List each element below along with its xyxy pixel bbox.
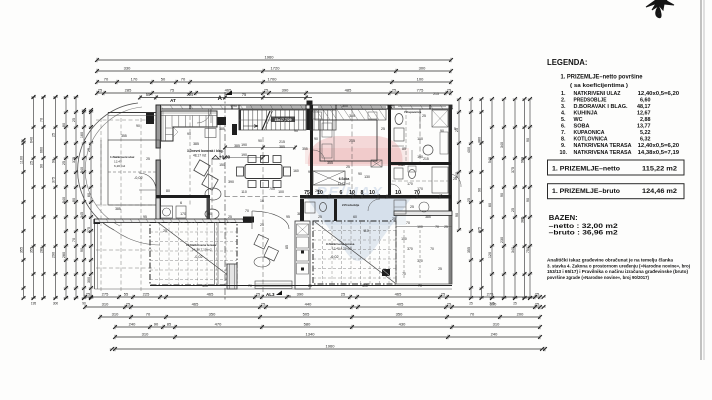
right dimension chains — [458, 99, 460, 230]
svg-text:370: 370 — [407, 247, 413, 251]
svg-text:310: 310 — [112, 312, 119, 317]
svg-text:1720: 1720 — [271, 66, 281, 71]
svg-text:NATKRIVENA TERASA: NATKRIVENA TERASA — [574, 143, 632, 149]
svg-text:9.: 9. — [561, 143, 566, 149]
svg-text:1700: 1700 — [268, 77, 278, 82]
svg-text:60: 60 — [353, 215, 357, 219]
north compass star — [646, 0, 674, 18]
svg-text:190: 190 — [241, 153, 247, 157]
svg-text:25: 25 — [346, 165, 350, 169]
svg-text:90: 90 — [258, 139, 262, 143]
svg-text:90: 90 — [294, 129, 298, 133]
svg-text:375: 375 — [477, 227, 481, 233]
svg-text:70: 70 — [104, 77, 109, 82]
svg-text:12,40x0,5=6,20: 12,40x0,5=6,20 — [638, 91, 680, 97]
coffee table — [205, 188, 221, 200]
svg-text:124,46 m2: 124,46 m2 — [642, 188, 677, 195]
kitchen counter column — [295, 221, 310, 289]
svg-text:190: 190 — [241, 143, 247, 147]
svg-text:385: 385 — [219, 127, 225, 131]
svg-text:580: 580 — [304, 322, 311, 327]
armchair 1 — [194, 160, 210, 176]
watermark RE/MAX balloon blue bottom — [306, 197, 412, 261]
svg-text:25: 25 — [444, 225, 448, 229]
svg-text:25: 25 — [511, 208, 515, 212]
svg-text:4.: 4. — [561, 110, 566, 116]
svg-text:–bruto : 36,96 m2: –bruto : 36,96 m2 — [549, 230, 619, 237]
svg-text:55: 55 — [146, 92, 151, 97]
svg-text:775: 775 — [417, 88, 424, 93]
svg-text:25: 25 — [447, 88, 452, 93]
bathroom fixtures — [395, 114, 403, 125]
svg-text:310: 310 — [493, 322, 500, 327]
svg-text:90: 90 — [72, 198, 76, 202]
svg-text:-0,02: -0,02 — [330, 255, 339, 259]
svg-text:90: 90 — [526, 138, 530, 142]
bottom dimension chains — [85, 296, 540, 298]
svg-text:90: 90 — [233, 104, 237, 108]
bedroom wardrobe hatch — [315, 110, 386, 121]
svg-text:355: 355 — [29, 247, 33, 253]
svg-text:110: 110 — [241, 190, 247, 194]
svg-text:90: 90 — [526, 198, 530, 202]
armchair 2 — [202, 174, 218, 190]
svg-text:AT: AT — [170, 98, 176, 103]
svg-text:NATKRIVENA TERASA: NATKRIVENA TERASA — [574, 150, 632, 156]
svg-text:120: 120 — [488, 252, 492, 258]
door arcs interior — [391, 184, 401, 194]
svg-text:240: 240 — [491, 332, 498, 337]
svg-text:195: 195 — [31, 302, 37, 306]
washbasin — [161, 206, 173, 218]
terrace 10 outline — [150, 223, 237, 286]
svg-text:6: 6 — [180, 201, 182, 205]
svg-text:95: 95 — [286, 215, 290, 219]
svg-text:6.: 6. — [561, 124, 566, 130]
door arc at top wall — [197, 109, 211, 123]
svg-text:WC: WC — [574, 117, 583, 123]
svg-text:465: 465 — [192, 302, 199, 307]
deck left edge — [94, 222, 96, 289]
svg-text:200: 200 — [315, 189, 321, 193]
svg-text:350: 350 — [396, 312, 403, 317]
svg-text:25: 25 — [51, 133, 55, 137]
svg-text:540: 540 — [62, 197, 66, 203]
bed — [320, 120, 377, 161]
svg-text:površine zgrade (»Narodne nov: površine zgrade (»Narodne novine«, broj … — [547, 275, 650, 280]
svg-text:385: 385 — [115, 207, 121, 211]
svg-text:405: 405 — [202, 284, 208, 288]
svg-text:375: 375 — [72, 157, 76, 163]
pool deck arc lower — [114, 230, 160, 245]
watermark RE/MAX balloon red top — [308, 136, 403, 166]
svg-text:385: 385 — [193, 142, 199, 146]
svg-text:25: 25 — [98, 88, 103, 93]
interior wall living/bedroom — [310, 105, 313, 196]
bottom row end doubles — [542, 295, 546, 299]
svg-text:2.Predsoblje: 2.Predsoblje — [342, 203, 360, 207]
zone edge line — [208, 109, 210, 219]
svg-text:90: 90 — [51, 159, 55, 163]
svg-text:48,17 m2: 48,17 m2 — [193, 154, 207, 158]
pool deck dashed grid — [96, 119, 155, 121]
svg-text:6.Soba: 6.Soba — [339, 177, 350, 181]
pool circle (BAZEN) — [78, 103, 138, 230]
interior vertical dashed — [262, 137, 264, 296]
svg-text:8.: 8. — [561, 137, 566, 143]
svg-text:9.Natkrivena terasa: 9.Natkrivena terasa — [326, 242, 355, 246]
top dimension chains — [97, 59, 451, 61]
svg-text:Analitički iskaz građevine obr: Analitički iskaz građevine obračunat je … — [547, 258, 674, 263]
svg-text:50: 50 — [161, 77, 166, 82]
svg-text:465: 465 — [207, 292, 214, 297]
svg-text:355: 355 — [121, 134, 127, 138]
svg-text:310: 310 — [102, 302, 109, 307]
svg-text:1960: 1960 — [326, 344, 336, 349]
svg-text:5.: 5. — [561, 117, 566, 123]
svg-text:540: 540 — [80, 167, 84, 173]
svg-text:115,22 m2: 115,22 m2 — [642, 166, 677, 173]
svg-text:385: 385 — [297, 212, 303, 216]
svg-text:KUPAONICA: KUPAONICA — [574, 130, 605, 136]
stair label — [271, 117, 295, 123]
svg-text:355: 355 — [467, 247, 471, 253]
wall pier top-left corner — [146, 113, 154, 124]
svg-text:70: 70 — [245, 209, 249, 213]
svg-text:25: 25 — [318, 215, 322, 219]
svg-text:225: 225 — [187, 92, 194, 97]
svg-text:90: 90 — [308, 170, 312, 174]
left dimension chains — [23, 140, 25, 298]
svg-text:70: 70 — [146, 312, 151, 317]
svg-text:400: 400 — [467, 147, 471, 153]
svg-text:6,20 m2: 6,20 m2 — [114, 164, 125, 168]
svg-text:15x17,7/29: 15x17,7/29 — [275, 118, 292, 122]
svg-text:385: 385 — [520, 217, 524, 223]
interior wall bedroom/bath — [388, 105, 391, 196]
svg-text:LEGENDA:: LEGENDA: — [547, 57, 588, 67]
svg-text:160: 160 — [80, 132, 84, 138]
svg-text:110: 110 — [363, 229, 369, 233]
svg-text:1100: 1100 — [19, 156, 23, 164]
svg-text:70: 70 — [470, 312, 475, 317]
svg-text:10: 10 — [395, 190, 401, 196]
svg-text:85: 85 — [167, 322, 172, 327]
staircase flight 1 — [239, 110, 306, 130]
svg-text:355: 355 — [19, 247, 23, 253]
svg-text:350: 350 — [209, 312, 216, 317]
deck outline — [396, 216, 452, 285]
svg-text:16: 16 — [260, 199, 264, 203]
svg-text:75: 75 — [170, 88, 175, 93]
legend bruto box — [548, 184, 685, 199]
windows in top wall — [246, 105, 306, 107]
svg-text:13,77 m2: 13,77 m2 — [338, 182, 351, 186]
svg-text:90: 90 — [314, 137, 318, 141]
svg-text:1. PRIZEMLJE–netto: 1. PRIZEMLJE–netto — [552, 166, 620, 173]
svg-text:340: 340 — [511, 247, 515, 253]
svg-text:380: 380 — [477, 137, 481, 143]
svg-text:90: 90 — [455, 213, 459, 217]
svg-text:KOTLOVNICA: KOTLOVNICA — [574, 137, 608, 143]
terrace 9 post — [382, 269, 390, 276]
svg-text:70: 70 — [430, 247, 434, 251]
svg-text:90: 90 — [358, 172, 362, 176]
svg-text:AL3: AL3 — [266, 292, 275, 297]
svg-text:375: 375 — [51, 177, 55, 183]
svg-text:90: 90 — [477, 188, 481, 192]
svg-text:25: 25 — [72, 118, 76, 122]
svg-text:PREDSOBLJE: PREDSOBLJE — [574, 97, 607, 103]
svg-text:90: 90 — [440, 129, 444, 133]
right exterior wall — [449, 105, 453, 216]
svg-text:25: 25 — [467, 198, 471, 202]
stair break line — [262, 111, 270, 130]
svg-text:390: 390 — [297, 292, 304, 297]
svg-text:5: 5 — [454, 127, 456, 131]
svg-text:485: 485 — [345, 88, 352, 93]
svg-text:25: 25 — [381, 127, 385, 131]
svg-text:1. PRIZEMLJE–netto površine: 1. PRIZEMLJE–netto površine — [561, 75, 644, 81]
svg-text:25: 25 — [256, 292, 261, 297]
svg-text:95: 95 — [143, 215, 147, 219]
terrace 10 inner vertical pair — [214, 223, 216, 286]
svg-text:1. PRIZEMLJE–bruto: 1. PRIZEMLJE–bruto — [552, 188, 620, 195]
svg-text:25: 25 — [29, 161, 33, 165]
svg-text:275: 275 — [102, 292, 109, 297]
svg-text:10.: 10. — [560, 150, 568, 156]
svg-text:14,38x0,5=7,19: 14,38x0,5=7,19 — [638, 150, 680, 156]
dining chairs — [248, 156, 256, 163]
svg-text:25: 25 — [86, 292, 91, 297]
svg-text:( sa koeficijentima ): ( sa koeficijentima ) — [570, 83, 628, 89]
patio step band — [255, 281, 292, 289]
svg-text:70: 70 — [418, 284, 422, 288]
dining table — [245, 165, 282, 179]
svg-text:70: 70 — [39, 118, 43, 122]
svg-text:215: 215 — [279, 140, 285, 144]
sofa side table — [205, 129, 216, 138]
svg-text:340: 340 — [500, 142, 504, 148]
svg-text:6,32: 6,32 — [640, 137, 651, 143]
outdoor chairs — [254, 234, 269, 249]
svg-text:375: 375 — [511, 167, 515, 173]
svg-text:240: 240 — [129, 322, 136, 327]
svg-text:290: 290 — [51, 252, 55, 258]
svg-text:90: 90 — [82, 302, 86, 306]
svg-text:25: 25 — [308, 284, 312, 288]
svg-text:75: 75 — [391, 105, 395, 109]
svg-text:160: 160 — [293, 169, 299, 173]
svg-text:25: 25 — [422, 114, 426, 118]
svg-text:750: 750 — [526, 247, 530, 253]
svg-text:25: 25 — [535, 302, 540, 307]
svg-text:280: 280 — [39, 247, 43, 253]
shower — [432, 110, 448, 127]
WC room fixtures — [394, 168, 403, 179]
svg-text:BAZEN:: BAZEN: — [549, 213, 578, 222]
svg-text:48,17: 48,17 — [637, 104, 651, 110]
svg-text:310: 310 — [362, 284, 368, 288]
svg-text:215: 215 — [433, 92, 439, 96]
svg-text:25: 25 — [535, 292, 540, 297]
interior dim line mid — [225, 196, 300, 198]
svg-text:6: 6 — [340, 190, 343, 196]
svg-text:170: 170 — [417, 187, 423, 191]
svg-text:100: 100 — [278, 190, 284, 194]
svg-text:90: 90 — [39, 164, 43, 168]
svg-text:660: 660 — [39, 147, 43, 153]
svg-text:700: 700 — [269, 187, 275, 191]
svg-text:300: 300 — [53, 302, 59, 306]
svg-text:465: 465 — [395, 292, 402, 297]
svg-text:25: 25 — [392, 88, 397, 93]
svg-text:130: 130 — [364, 175, 370, 179]
svg-text:60: 60 — [488, 203, 492, 207]
svg-text:1340: 1340 — [306, 332, 316, 337]
svg-text:285: 285 — [125, 88, 132, 93]
svg-text:150: 150 — [219, 163, 225, 167]
bottom slab edges — [150, 285, 452, 287]
svg-text:960: 960 — [520, 157, 524, 163]
washroom walls — [156, 195, 210, 198]
door arc right wall — [450, 174, 461, 187]
svg-text:100: 100 — [417, 225, 423, 229]
svg-text:7.Kupaonica: 7.Kupaonica — [404, 110, 422, 114]
lower-left wall band — [95, 219, 253, 223]
svg-text:355: 355 — [302, 147, 308, 151]
south wall right section — [394, 211, 452, 216]
svg-text:25: 25 — [453, 177, 457, 181]
boiler rect — [176, 206, 186, 218]
staircase flight 2 — [310, 110, 336, 130]
svg-text:90: 90 — [187, 132, 191, 136]
svg-text:70: 70 — [181, 77, 186, 82]
top exterior wall — [156, 105, 452, 109]
svg-text:25: 25 — [447, 302, 452, 307]
porch top wall — [108, 112, 156, 114]
svg-text:25: 25 — [62, 161, 66, 165]
svg-text:440: 440 — [305, 302, 312, 307]
left exterior wall — [156, 105, 161, 148]
svg-text:5,22: 5,22 — [640, 130, 651, 136]
svg-text:12,40x0,5=6,20: 12,40x0,5=6,20 — [638, 143, 680, 149]
svg-text:3.Dnevni boravak i blag.: 3.Dnevni boravak i blag. — [187, 149, 224, 153]
svg-text:300: 300 — [87, 277, 91, 283]
svg-text:275: 275 — [487, 292, 494, 297]
staircase wall — [307, 109, 311, 130]
svg-text:200: 200 — [517, 312, 524, 317]
pier lower-left — [243, 217, 254, 223]
svg-text:90: 90 — [500, 193, 504, 197]
svg-text:25: 25 — [469, 302, 473, 306]
svg-text:70: 70 — [435, 225, 439, 229]
svg-text:25: 25 — [146, 157, 150, 161]
nightstands — [313, 112, 322, 119]
svg-text:10: 10 — [369, 190, 375, 196]
svg-text:90: 90 — [62, 123, 66, 127]
svg-text:NATKRIVENI ULAZ: NATKRIVENI ULAZ — [574, 91, 622, 97]
svg-text:215: 215 — [423, 157, 429, 161]
svg-text:230: 230 — [500, 237, 504, 243]
svg-text:75: 75 — [242, 92, 247, 97]
svg-text:390: 390 — [282, 88, 289, 93]
svg-text:3. stavka 4. Zakona o prostorn: 3. stavka 4. Zakona o prostornom uređenj… — [547, 263, 690, 268]
svg-text:25: 25 — [513, 302, 517, 306]
svg-text:55: 55 — [124, 292, 129, 297]
svg-text:170: 170 — [407, 182, 413, 186]
patio door swing — [252, 211, 289, 229]
svg-text:2.: 2. — [561, 97, 566, 103]
planter strip — [227, 264, 237, 289]
svg-text:505: 505 — [303, 312, 310, 317]
svg-text:375: 375 — [87, 227, 91, 233]
bath tiles and bars — [392, 145, 404, 147]
svg-text:330: 330 — [124, 66, 131, 71]
svg-text:25: 25 — [341, 292, 346, 297]
svg-text:25: 25 — [126, 302, 131, 307]
svg-text:25: 25 — [264, 88, 269, 93]
svg-text:12,40: 12,40 — [114, 160, 122, 164]
svg-text:385: 385 — [279, 145, 285, 149]
inner top dimension row — [140, 97, 312, 99]
svg-text:540: 540 — [488, 157, 492, 163]
pouf near patio door — [205, 209, 219, 219]
svg-text:225: 225 — [143, 292, 150, 297]
svg-text:-0,02: -0,02 — [134, 176, 143, 180]
svg-text:7.: 7. — [561, 130, 566, 136]
svg-text:430: 430 — [399, 322, 406, 327]
wall tick cluster — [305, 195, 309, 199]
svg-text:25: 25 — [163, 229, 167, 233]
svg-text:345: 345 — [80, 212, 84, 218]
svg-text:25: 25 — [392, 217, 396, 221]
svg-text:6,60: 6,60 — [640, 97, 651, 103]
svg-text:90: 90 — [154, 322, 159, 327]
svg-text:300: 300 — [490, 302, 497, 307]
interior wall bath horizontal — [388, 162, 451, 165]
svg-text:1960: 1960 — [265, 55, 275, 60]
svg-text:25: 25 — [441, 292, 446, 297]
wall piers — [217, 117, 226, 125]
svg-text:25: 25 — [260, 223, 264, 227]
svg-text:3.: 3. — [561, 104, 566, 110]
svg-text:2,88: 2,88 — [640, 117, 651, 123]
svg-text:5.WC: 5.WC — [398, 163, 406, 167]
svg-text:385: 385 — [425, 215, 431, 219]
svg-text:A: A — [218, 96, 223, 102]
svg-text:10.Natkrivena terasa: 10.Natkrivena terasa — [186, 243, 216, 247]
svg-text:90: 90 — [136, 124, 140, 128]
svg-text:25: 25 — [438, 267, 442, 271]
svg-text:640: 640 — [29, 137, 33, 143]
svg-text:60: 60 — [208, 212, 212, 216]
interior wall south of bedroom — [300, 195, 451, 199]
interior dim line dining — [225, 147, 295, 149]
legend netto box — [548, 160, 685, 175]
porch door swing — [139, 173, 156, 190]
svg-text:310: 310 — [142, 332, 149, 337]
stair arrow — [243, 125, 258, 127]
svg-text:70: 70 — [248, 284, 252, 288]
svg-text:80: 80 — [166, 189, 170, 193]
svg-text:25: 25 — [410, 205, 414, 209]
svg-text:170: 170 — [131, 77, 138, 82]
svg-text:12,67: 12,67 — [637, 110, 651, 116]
svg-text:12,40 6,20 m2: 12,40 6,20 m2 — [332, 247, 352, 251]
porch dashed vertical — [189, 116, 191, 205]
svg-text:470: 470 — [215, 322, 222, 327]
